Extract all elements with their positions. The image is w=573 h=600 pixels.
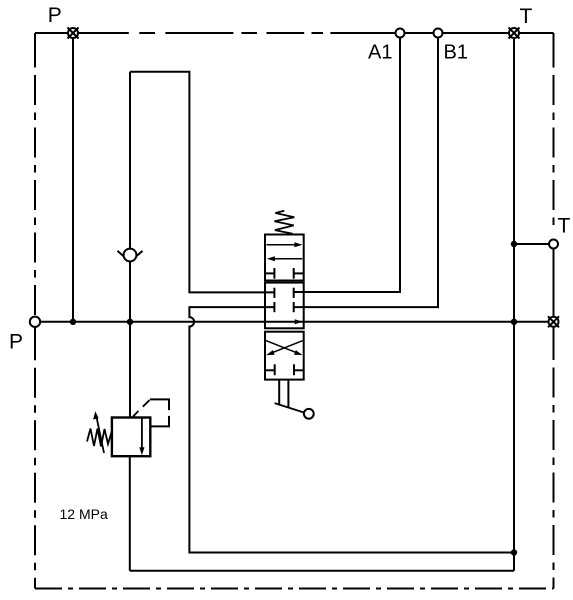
valve position square 3 — [265, 332, 304, 380]
valve lever stem — [279, 380, 288, 408]
relief valve pilot loop — [150, 399, 169, 426]
junction T line at bottom return — [511, 549, 517, 555]
svg-text:B1: B1 — [444, 42, 468, 64]
port T right — [549, 240, 558, 249]
valve position square 1 — [265, 235, 304, 281]
wire main P horizontal — [40, 321, 548, 323]
square2 blocked port top-right — [293, 288, 295, 298]
relief valve RV1 body — [112, 418, 150, 457]
square3 cross arrow a — [266, 341, 297, 353]
square1 arrow left — [274, 258, 303, 260]
square2 blocked port top-left — [273, 288, 275, 298]
valve lever arm — [275, 403, 304, 412]
port P left — [30, 317, 40, 327]
junction P top line — [70, 319, 76, 325]
svg-text:T: T — [558, 215, 571, 238]
port A1 — [396, 29, 405, 38]
svg-text:T: T — [520, 5, 533, 28]
svg-text:P: P — [9, 331, 23, 354]
valve position square 2 — [265, 283, 304, 329]
port P top plugged — [68, 28, 79, 39]
square2 blocked port bottom-right — [293, 302, 295, 312]
square3 cross arrow b — [272, 341, 303, 353]
relief valve adjust arrow — [97, 418, 104, 454]
relief valve spring — [87, 429, 112, 447]
junction T line at T port — [511, 241, 517, 247]
wire loop top — [130, 72, 274, 293]
enclosure border left — [34, 33, 36, 316]
enclosure border top — [35, 32, 129, 34]
valve lever knob — [304, 409, 314, 419]
square2 flow arrow P to T — [295, 319, 303, 324]
wire B1 — [294, 38, 438, 308]
junction check valve branch — [127, 319, 133, 325]
wire T to right port — [514, 243, 549, 245]
junction T line at main — [511, 319, 517, 325]
port B1 — [434, 29, 443, 38]
wire relief valve inlet — [129, 322, 131, 418]
square1 blocked port left — [265, 268, 274, 279]
square1 arrow right — [267, 244, 296, 246]
wire bottom return — [130, 570, 514, 572]
port T top plugged — [509, 28, 520, 39]
wire check valve branch riser — [129, 262, 131, 322]
directional valve DV1 body — [265, 235, 304, 380]
enclosure border right — [553, 33, 555, 226]
wire P vertical from top port — [72, 38, 74, 322]
wire T vertical — [513, 38, 515, 571]
wire valve left to tank drop with hop — [189, 307, 514, 552]
square1 blocked port right — [294, 268, 304, 279]
square3 blocked port right — [294, 364, 304, 375]
port plugged right — [548, 316, 559, 327]
enclosure border bottom — [35, 588, 554, 590]
relief valve pilot line dashes — [132, 400, 149, 417]
valve return spring — [274, 211, 294, 234]
relief valve flow arrow — [141, 418, 143, 449]
check valve V1 — [118, 249, 143, 262]
square3 blocked port left — [265, 364, 275, 375]
wire A1 — [294, 38, 400, 293]
wire relief valve drain — [129, 456, 131, 571]
svg-text:P: P — [48, 4, 62, 27]
svg-text:A1: A1 — [368, 42, 392, 64]
svg-text:12 MPa: 12 MPa — [60, 506, 108, 522]
square2 blocked port bottom-left — [273, 302, 275, 312]
